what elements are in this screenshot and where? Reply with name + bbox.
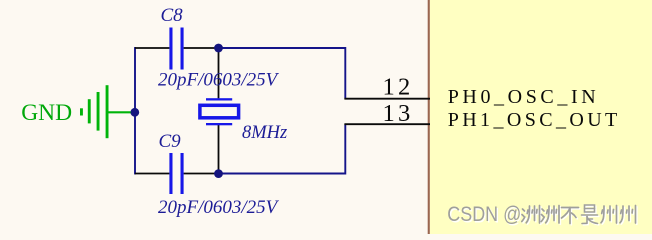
svg-text:12: 12 [383, 73, 414, 100]
svg-text:8MHz: 8MHz [242, 123, 287, 143]
svg-text:GND: GND [21, 100, 72, 126]
svg-text:PH1_OSC_OUT: PH1_OSC_OUT [448, 109, 621, 131]
svg-text:20pF/0603/25V: 20pF/0603/25V [158, 197, 280, 218]
svg-text:13: 13 [383, 100, 414, 127]
svg-text:C9: C9 [159, 131, 182, 152]
svg-text:PH0_OSC_IN: PH0_OSC_IN [448, 86, 600, 108]
svg-text:20pF/0603/25V: 20pF/0603/25V [158, 70, 280, 91]
svg-text:C8: C8 [161, 5, 184, 26]
